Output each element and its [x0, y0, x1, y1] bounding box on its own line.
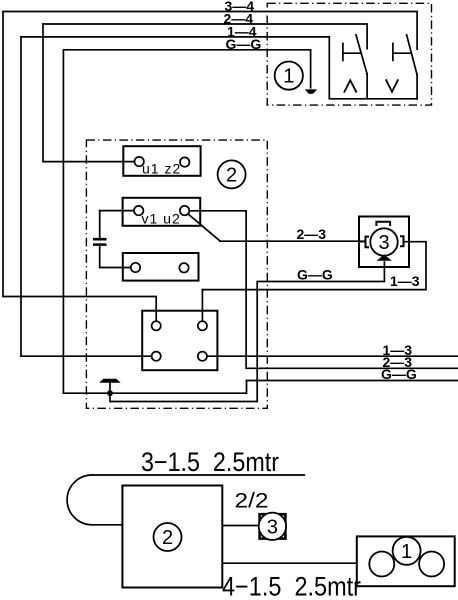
svg-text:G—G: G—G [226, 36, 262, 52]
svg-text:4−1.5 2.5mtr: 4−1.5 2.5mtr [222, 572, 361, 600]
svg-text:3: 3 [267, 516, 278, 538]
svg-text:1: 1 [283, 66, 294, 88]
svg-text:1: 1 [401, 541, 412, 563]
svg-text:2—3: 2—3 [297, 226, 327, 242]
svg-text:G—G: G—G [297, 266, 333, 282]
svg-text:u1 z2: u1 z2 [142, 161, 181, 177]
svg-text:v1 u2: v1 u2 [142, 211, 181, 227]
svg-text:1—3: 1—3 [390, 273, 420, 289]
svg-text:3: 3 [378, 232, 389, 254]
svg-text:2/2: 2/2 [235, 490, 269, 513]
svg-text:3−1.5 2.5mtr: 3−1.5 2.5mtr [141, 447, 279, 477]
svg-text:2: 2 [226, 164, 237, 186]
svg-text:G—G: G—G [381, 366, 417, 382]
svg-text:2: 2 [162, 527, 173, 549]
